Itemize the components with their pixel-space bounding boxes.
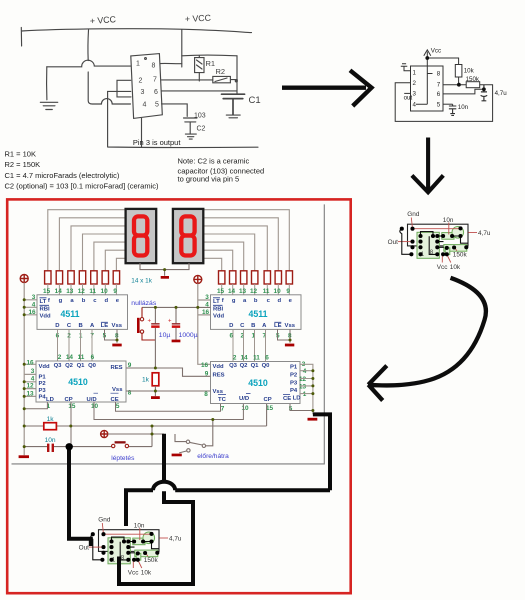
wire inner column U2	[429, 236, 437, 254]
svg-text:+: +	[148, 319, 152, 325]
pin 1 index mark	[145, 58, 147, 60]
capacitor 10u	[148, 307, 171, 368]
junction cap node	[482, 87, 486, 91]
svg-text:3: 3	[31, 368, 35, 375]
svg-text:2: 2	[139, 78, 143, 85]
capacitor 1000u	[168, 307, 198, 339]
svg-text:Pin 3 is output: Pin 3 is output	[133, 138, 181, 147]
svg-text:14 x 1k: 14 x 1k	[131, 277, 152, 284]
wire display segment buses	[48, 210, 289, 271]
wire jumper pin U3	[112, 537, 125, 541]
solder pads U2	[400, 226, 469, 256]
resistor 10k	[455, 65, 462, 78]
junction Vcc node	[425, 56, 429, 60]
wire R1 top rail	[182, 54, 237, 57]
wire pin2 feedback loop	[395, 83, 492, 122]
svg-text:d: d	[104, 298, 108, 304]
svg-text:150k: 150k	[466, 76, 480, 83]
svg-text:6: 6	[91, 354, 95, 361]
svg-text:A: A	[262, 323, 267, 329]
svg-text:4511: 4511	[248, 309, 267, 319]
wire CE-left to TC-right	[116, 402, 221, 411]
resistor R2	[213, 76, 237, 82]
wire top +VCC rail	[22, 29, 252, 33]
svg-text:12: 12	[299, 376, 307, 383]
wire right preset rail	[300, 364, 313, 414]
svg-text:11: 11	[78, 354, 85, 361]
wire gnd leader U2	[411, 218, 412, 229]
svg-text:LD: LD	[293, 395, 301, 401]
capacitor 10n	[449, 104, 456, 115]
svg-text:10k: 10k	[450, 264, 461, 271]
svg-text:P3: P3	[290, 380, 298, 386]
wire BCD bus right	[233, 329, 266, 361]
svg-text:5: 5	[437, 101, 441, 108]
pushbutton nullazas	[140, 307, 155, 340]
svg-text:10k: 10k	[141, 569, 152, 576]
wire chip bottom stub	[141, 118, 143, 147]
wire 4511 right LE/Vss to ground	[278, 329, 291, 342]
svg-text:4: 4	[413, 101, 417, 108]
svg-text:15: 15	[43, 288, 51, 295]
svg-text:3: 3	[205, 294, 209, 301]
svg-text:3: 3	[413, 91, 417, 98]
svg-text:13: 13	[239, 288, 247, 295]
wire inner column U3	[120, 542, 128, 560]
pin numbers 4510 top rows	[58, 354, 270, 362]
wire out leader U2	[398, 241, 413, 243]
svg-text:150k: 150k	[144, 557, 159, 564]
svg-text:U/D: U/D	[239, 396, 249, 402]
wire out leader U3	[89, 546, 104, 548]
svg-text:8: 8	[437, 71, 441, 78]
svg-text:2: 2	[58, 354, 62, 361]
board outline U2	[408, 224, 469, 246]
svg-text:Out: Out	[79, 544, 90, 551]
svg-text:Vdd: Vdd	[39, 364, 51, 370]
svg-text:RES: RES	[111, 365, 123, 371]
capacitor C2	[184, 118, 198, 134]
solder pads U3	[91, 532, 160, 562]
svg-text:1: 1	[136, 61, 140, 68]
wire 10n leader U3	[139, 528, 141, 540]
wire 150k leader U3	[146, 554, 148, 557]
wire VCC2 drop	[181, 30, 183, 67]
svg-text:Q0: Q0	[262, 363, 271, 369]
svg-text:+: +	[168, 319, 172, 325]
wire reset top net	[142, 306, 211, 308]
svg-text:LE: LE	[101, 323, 109, 329]
wire Vcc stem	[426, 52, 428, 67]
ground switch	[172, 454, 182, 457]
wire row links U2	[437, 236, 468, 254]
svg-text:4,7u: 4,7u	[495, 90, 508, 97]
svg-text:15: 15	[217, 288, 225, 295]
svg-text:Q1: Q1	[77, 363, 86, 369]
svg-text:10n: 10n	[458, 104, 469, 111]
svg-text:1k: 1k	[142, 376, 150, 383]
wire Vss bus	[126, 390, 211, 392]
svg-text:103: 103	[194, 113, 206, 120]
svg-text:b: b	[254, 298, 258, 304]
svg-text:C: C	[240, 323, 245, 329]
svg-text:P4: P4	[290, 388, 298, 394]
wire pin2 jog	[117, 80, 131, 97]
svg-text:RBI: RBI	[40, 306, 51, 312]
Vcc arrow symbol	[424, 50, 431, 56]
layout block 555 bottom	[79, 517, 182, 577]
svg-text:11: 11	[89, 288, 96, 295]
ground stem left	[46, 67, 48, 100]
svg-text:D: D	[55, 323, 59, 329]
svg-text:P1: P1	[39, 374, 47, 380]
svg-text:14: 14	[228, 288, 236, 295]
svg-text:8: 8	[152, 63, 156, 70]
wire node column C1	[236, 56, 238, 94]
svg-text:Q3: Q3	[229, 363, 238, 369]
svg-text:10n: 10n	[443, 217, 454, 224]
wire display commons	[140, 263, 189, 276]
resistor 150k body U2	[444, 245, 467, 252]
wire pin7 line	[162, 79, 213, 81]
wire resistor-to-4511 stubs	[48, 284, 289, 295]
wire thick out line	[69, 447, 91, 546]
svg-text:1: 1	[413, 70, 417, 77]
svg-text:A: A	[90, 323, 95, 329]
ground symbol left	[40, 102, 58, 109]
svg-text:B: B	[251, 323, 255, 329]
wire step row	[24, 446, 152, 448]
svg-text:14: 14	[55, 288, 63, 295]
svg-text:g: g	[232, 298, 236, 304]
wire CE-right to rail	[290, 404, 313, 411]
red frame	[7, 199, 351, 593]
svg-text:2: 2	[233, 355, 237, 362]
svg-text:10: 10	[101, 288, 109, 295]
resistor 150k body U3	[135, 550, 158, 557]
ground C1	[226, 115, 240, 118]
supply symbol right	[194, 275, 202, 283]
junction pin7 node	[457, 83, 461, 87]
wire 150k leader U2	[455, 248, 457, 251]
wire 4511 left LE/Vss to ground	[105, 329, 118, 342]
svg-text:Vss: Vss	[112, 323, 123, 329]
svg-text:10k: 10k	[464, 68, 475, 75]
wire pin8 stub	[160, 62, 182, 64]
svg-text:1: 1	[303, 391, 307, 398]
ground 4511 left	[112, 344, 121, 347]
display DIS1 digit 8	[134, 216, 147, 255]
svg-text:előre/hátra: előre/hátra	[197, 453, 229, 460]
wire 4.7u leader U3	[159, 537, 168, 539]
svg-text:P1: P1	[290, 365, 298, 371]
display DIS2 body	[173, 209, 203, 263]
ground display common	[161, 276, 169, 279]
svg-text:C2 (optional) = 103 [0.1 micro: C2 (optional) = 103 [0.1 microFarad] (ce…	[5, 181, 160, 190]
svg-text:4510: 4510	[248, 378, 268, 388]
svg-text:11: 11	[263, 288, 270, 295]
svg-text:P2: P2	[290, 372, 298, 378]
svg-text:Out: Out	[388, 239, 399, 246]
svg-text:Q0: Q0	[88, 363, 97, 369]
arrow curved	[368, 278, 486, 401]
resistor R4 1k	[44, 416, 57, 430]
svg-text:g: g	[59, 298, 63, 304]
svg-text:10n: 10n	[45, 437, 56, 444]
capacitor 10n body U2	[442, 233, 454, 240]
svg-text:1000µ: 1000µ	[179, 332, 198, 339]
svg-text:3: 3	[32, 294, 36, 301]
svg-text:Vcc: Vcc	[437, 264, 448, 271]
svg-text:Vdd: Vdd	[213, 313, 225, 319]
IC 555 body U2	[417, 232, 439, 258]
svg-text:LT: LT	[40, 299, 47, 305]
svg-text:4: 4	[32, 301, 36, 308]
op-amp 555 U2 body	[411, 66, 444, 111]
svg-text:Gnd: Gnd	[98, 517, 111, 524]
ground C2	[185, 134, 196, 139]
svg-text:16: 16	[28, 309, 36, 316]
wire thick clock line	[119, 434, 193, 584]
wire left column U3	[91, 534, 103, 560]
wire thick counter ground	[126, 414, 330, 526]
capacitor 4.7u	[481, 85, 488, 101]
wire inner boundary	[12, 204, 325, 464]
svg-text:C2: C2	[197, 126, 206, 133]
svg-text:Vdd: Vdd	[40, 313, 52, 319]
svg-text:16: 16	[26, 359, 34, 366]
decoder U4 4511 left	[28, 294, 127, 340]
svg-text:16: 16	[202, 309, 210, 316]
svg-text:R2: R2	[216, 67, 226, 76]
svg-text:Vcc: Vcc	[431, 48, 441, 55]
svg-text:12: 12	[26, 383, 34, 390]
wire jumper pin U2	[421, 232, 434, 236]
svg-text:P2: P2	[39, 381, 47, 387]
svg-text:14: 14	[66, 354, 74, 361]
svg-text:14: 14	[240, 355, 248, 362]
svg-text:5: 5	[276, 332, 280, 339]
svg-text:P3: P3	[39, 388, 47, 394]
svg-text:4,7u: 4,7u	[169, 535, 182, 542]
svg-text:16: 16	[201, 362, 209, 369]
svg-text:nullázás: nullázás	[131, 300, 157, 307]
svg-text:5: 5	[155, 102, 159, 109]
op-amp 555 hand-drawn body	[131, 54, 163, 119]
svg-text:C: C	[67, 323, 72, 329]
ground right rail	[308, 418, 318, 421]
svg-text:C1: C1	[249, 95, 261, 106]
capacitor 4.7u body U3	[143, 532, 155, 544]
svg-text:R2 = 150K: R2 = 150K	[5, 160, 41, 169]
wire 4.7u leader U2	[468, 232, 477, 234]
wire LD left to rail	[24, 402, 47, 409]
svg-text:6: 6	[265, 355, 269, 362]
svg-text:R1: R1	[206, 59, 216, 68]
svg-text:7: 7	[221, 405, 225, 412]
svg-text:150k: 150k	[453, 252, 468, 259]
svg-text:7: 7	[153, 77, 157, 84]
svg-text:Q2: Q2	[240, 363, 249, 369]
switch elore/hatra	[175, 420, 213, 453]
svg-text:RES: RES	[213, 372, 225, 378]
wire VCC drop to pin1 node	[87, 30, 90, 61]
svg-text:Vss: Vss	[112, 387, 123, 393]
resistor network 14 x 1k	[45, 271, 293, 284]
svg-text:Q3: Q3	[54, 363, 63, 369]
svg-text:to ground via pin 5: to ground via pin 5	[178, 175, 240, 184]
ground 4511 right	[285, 344, 294, 347]
svg-text:CP: CP	[264, 397, 272, 403]
svg-text:12: 12	[250, 288, 258, 295]
svg-text:11: 11	[253, 355, 260, 362]
svg-text:B: B	[78, 323, 82, 329]
svg-text:5: 5	[116, 403, 120, 410]
svg-text:Vcc: Vcc	[128, 569, 139, 576]
svg-text:12: 12	[78, 288, 86, 295]
wire pin3 output	[108, 91, 258, 147]
svg-text:4: 4	[143, 102, 147, 109]
wire VCC drop lower part to pin4	[88, 72, 130, 104]
wire gnd leader U3	[102, 523, 103, 534]
svg-text:10: 10	[274, 288, 282, 295]
svg-text:4511: 4511	[60, 309, 79, 319]
wire vcc leader U3	[132, 560, 134, 568]
capacitor C3 10n	[45, 437, 56, 452]
svg-text:10µ: 10µ	[159, 332, 171, 339]
svg-text:Note: C2 is a ceramic: Note: C2 is a ceramic	[178, 157, 250, 166]
svg-text:D: D	[229, 323, 233, 329]
display DIS1 body	[126, 209, 157, 263]
svg-text:4,7u: 4,7u	[478, 230, 491, 237]
svg-text:CE: CE	[283, 396, 291, 402]
svg-text:LE: LE	[274, 323, 282, 329]
svg-text:6: 6	[154, 89, 158, 96]
wire clock node link	[108, 426, 164, 447]
supply symbol left	[20, 275, 28, 283]
svg-text:RBI: RBI	[213, 306, 224, 312]
wire left rail tick	[20, 28, 22, 47]
board outline U3	[99, 530, 160, 552]
svg-text:b: b	[82, 298, 86, 304]
resistor 10k body U2	[445, 248, 450, 255]
svg-text:+ VCC: + VCC	[185, 13, 212, 24]
wire pin7	[443, 84, 466, 86]
arrow down	[412, 138, 443, 193]
svg-text:5: 5	[289, 405, 293, 412]
svg-text:R1 = 10K: R1 = 10K	[5, 150, 36, 159]
wire row links U3	[128, 542, 159, 560]
wire internal Vcc to pins 8 and 4	[416, 66, 433, 104]
resistor R1	[195, 56, 204, 81]
svg-text:f: f	[222, 298, 224, 304]
svg-text:13: 13	[66, 288, 74, 295]
wire pin5 line	[162, 104, 188, 117]
svg-text:Gnd: Gnd	[407, 211, 420, 218]
svg-text:9: 9	[286, 288, 290, 295]
ground 1000u	[172, 340, 181, 343]
svg-text:4: 4	[303, 368, 307, 375]
svg-text:8: 8	[204, 391, 208, 398]
pin numbers 4511 top rows	[43, 288, 290, 295]
wire BCD bus left	[58, 329, 93, 361]
svg-text:d: d	[277, 298, 281, 304]
svg-text:10: 10	[91, 403, 99, 410]
svg-text:Q1: Q1	[251, 363, 260, 369]
counter U6 4510 left	[26, 359, 131, 410]
resistor 150k	[466, 82, 480, 88]
wire pin3 out	[404, 92, 410, 94]
svg-text:Vss: Vss	[285, 323, 296, 329]
junction big out node	[66, 443, 73, 450]
svg-text:CE: CE	[111, 397, 119, 403]
svg-text:4510: 4510	[68, 377, 88, 387]
svg-text:10: 10	[241, 405, 249, 412]
svg-text:1k: 1k	[47, 416, 55, 423]
svg-text:3: 3	[141, 89, 145, 96]
capacitor 10n body U3	[133, 538, 145, 545]
wire pin1 to ground with hop over VCC drop	[47, 60, 131, 67]
wire 10k leader U2	[447, 255, 451, 263]
resistor 10k body U3	[136, 553, 141, 560]
wire UD bus	[94, 402, 243, 420]
svg-text:TC: TC	[218, 397, 227, 403]
display DIS2 digit 8	[181, 216, 194, 255]
layout block 555 mid-right	[388, 211, 491, 271]
arrow right	[282, 70, 372, 106]
capacitor C1	[222, 94, 245, 114]
decoder U5 4511 right	[202, 294, 301, 340]
svg-text:2: 2	[413, 80, 417, 87]
svg-text:f: f	[48, 298, 50, 304]
svg-text:C1 = 4.7 microFarads (electrol: C1 = 4.7 microFarads (electrolytic)	[5, 171, 120, 180]
wire gnd net U2	[413, 228, 461, 230]
svg-text:9: 9	[113, 288, 117, 295]
wire left column U2	[400, 229, 412, 255]
wire gnd net U3	[104, 533, 152, 535]
junction dots	[23, 268, 315, 448]
svg-text:Vdd: Vdd	[213, 364, 225, 370]
supply symbol clock	[101, 430, 108, 437]
svg-text:7: 7	[437, 82, 441, 89]
svg-text:Q2: Q2	[65, 363, 74, 369]
counter U7 4510 right	[201, 361, 307, 412]
wire 10k leader U3	[138, 560, 142, 568]
wire 10k to pin7	[458, 77, 460, 85]
junction node R2-C1	[235, 79, 238, 82]
svg-text:+ VCC: + VCC	[89, 14, 116, 26]
wire right supply rail	[198, 284, 211, 365]
wire pin6	[443, 89, 484, 94]
ground R3	[151, 396, 160, 399]
wire Vcc to 10k	[427, 58, 458, 65]
capacitor 4.7u body U2	[452, 227, 464, 239]
wire pin6 line	[162, 90, 237, 92]
wire left supply rail	[24, 283, 37, 456]
wire CP-left drop	[70, 402, 72, 447]
svg-text:léptetés: léptetés	[111, 455, 135, 462]
svg-text:out: out	[404, 95, 413, 102]
svg-text:13: 13	[26, 390, 34, 397]
IC 555 body U3	[108, 538, 130, 564]
pushbutton leptetes	[112, 444, 129, 447]
svg-text:13: 13	[299, 384, 307, 391]
svg-text:10n: 10n	[134, 522, 145, 529]
ground left rail	[19, 455, 29, 458]
svg-text:6: 6	[437, 91, 441, 98]
wire clock bus	[24, 404, 266, 426]
wire RES bus	[126, 368, 211, 376]
